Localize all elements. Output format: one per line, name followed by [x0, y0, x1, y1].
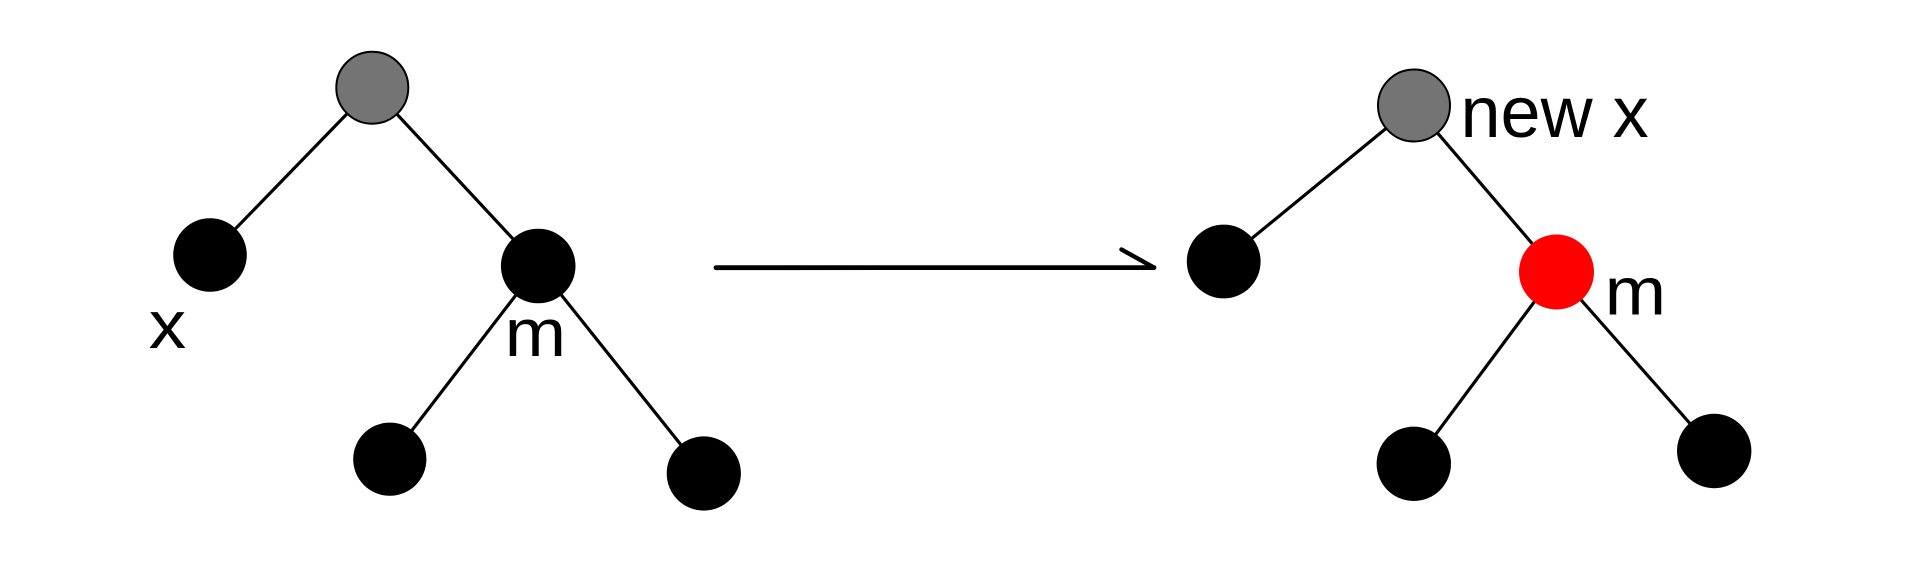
arrow shaft	[716, 265, 1154, 270]
svg-text:m: m	[1605, 254, 1667, 330]
node x: left tree black left child	[173, 218, 247, 292]
svg-text:new x: new x	[1461, 73, 1649, 153]
node new x: right tree gray root	[1378, 70, 1450, 142]
wire: right tree edge root to left child	[1224, 106, 1414, 262]
wire: left tree edge m to left child	[390, 266, 538, 459]
wire: left tree edge root to left child	[210, 88, 372, 255]
wire: right tree edge m to right child	[1557, 272, 1715, 451]
node m: left tree black successor	[501, 229, 576, 304]
node: left tree gray root	[336, 52, 408, 124]
wire: right tree edge m to left child	[1414, 272, 1557, 464]
node: right tree red right child	[1677, 414, 1751, 488]
arrow barb	[1122, 250, 1155, 268]
wire: left tree edge root to node m	[372, 88, 538, 266]
node: right tree red left child	[1377, 427, 1451, 501]
svg-text:x: x	[149, 287, 186, 363]
node: left tree m right child	[667, 436, 741, 510]
svg-text:m: m	[505, 295, 566, 371]
node: left tree m left child	[353, 423, 426, 496]
wire: right tree edge root to node m	[1414, 106, 1557, 273]
node m: right tree red successor	[1519, 235, 1594, 310]
wire: left tree edge m to right child	[538, 266, 704, 474]
node: right tree black left child	[1187, 225, 1261, 299]
